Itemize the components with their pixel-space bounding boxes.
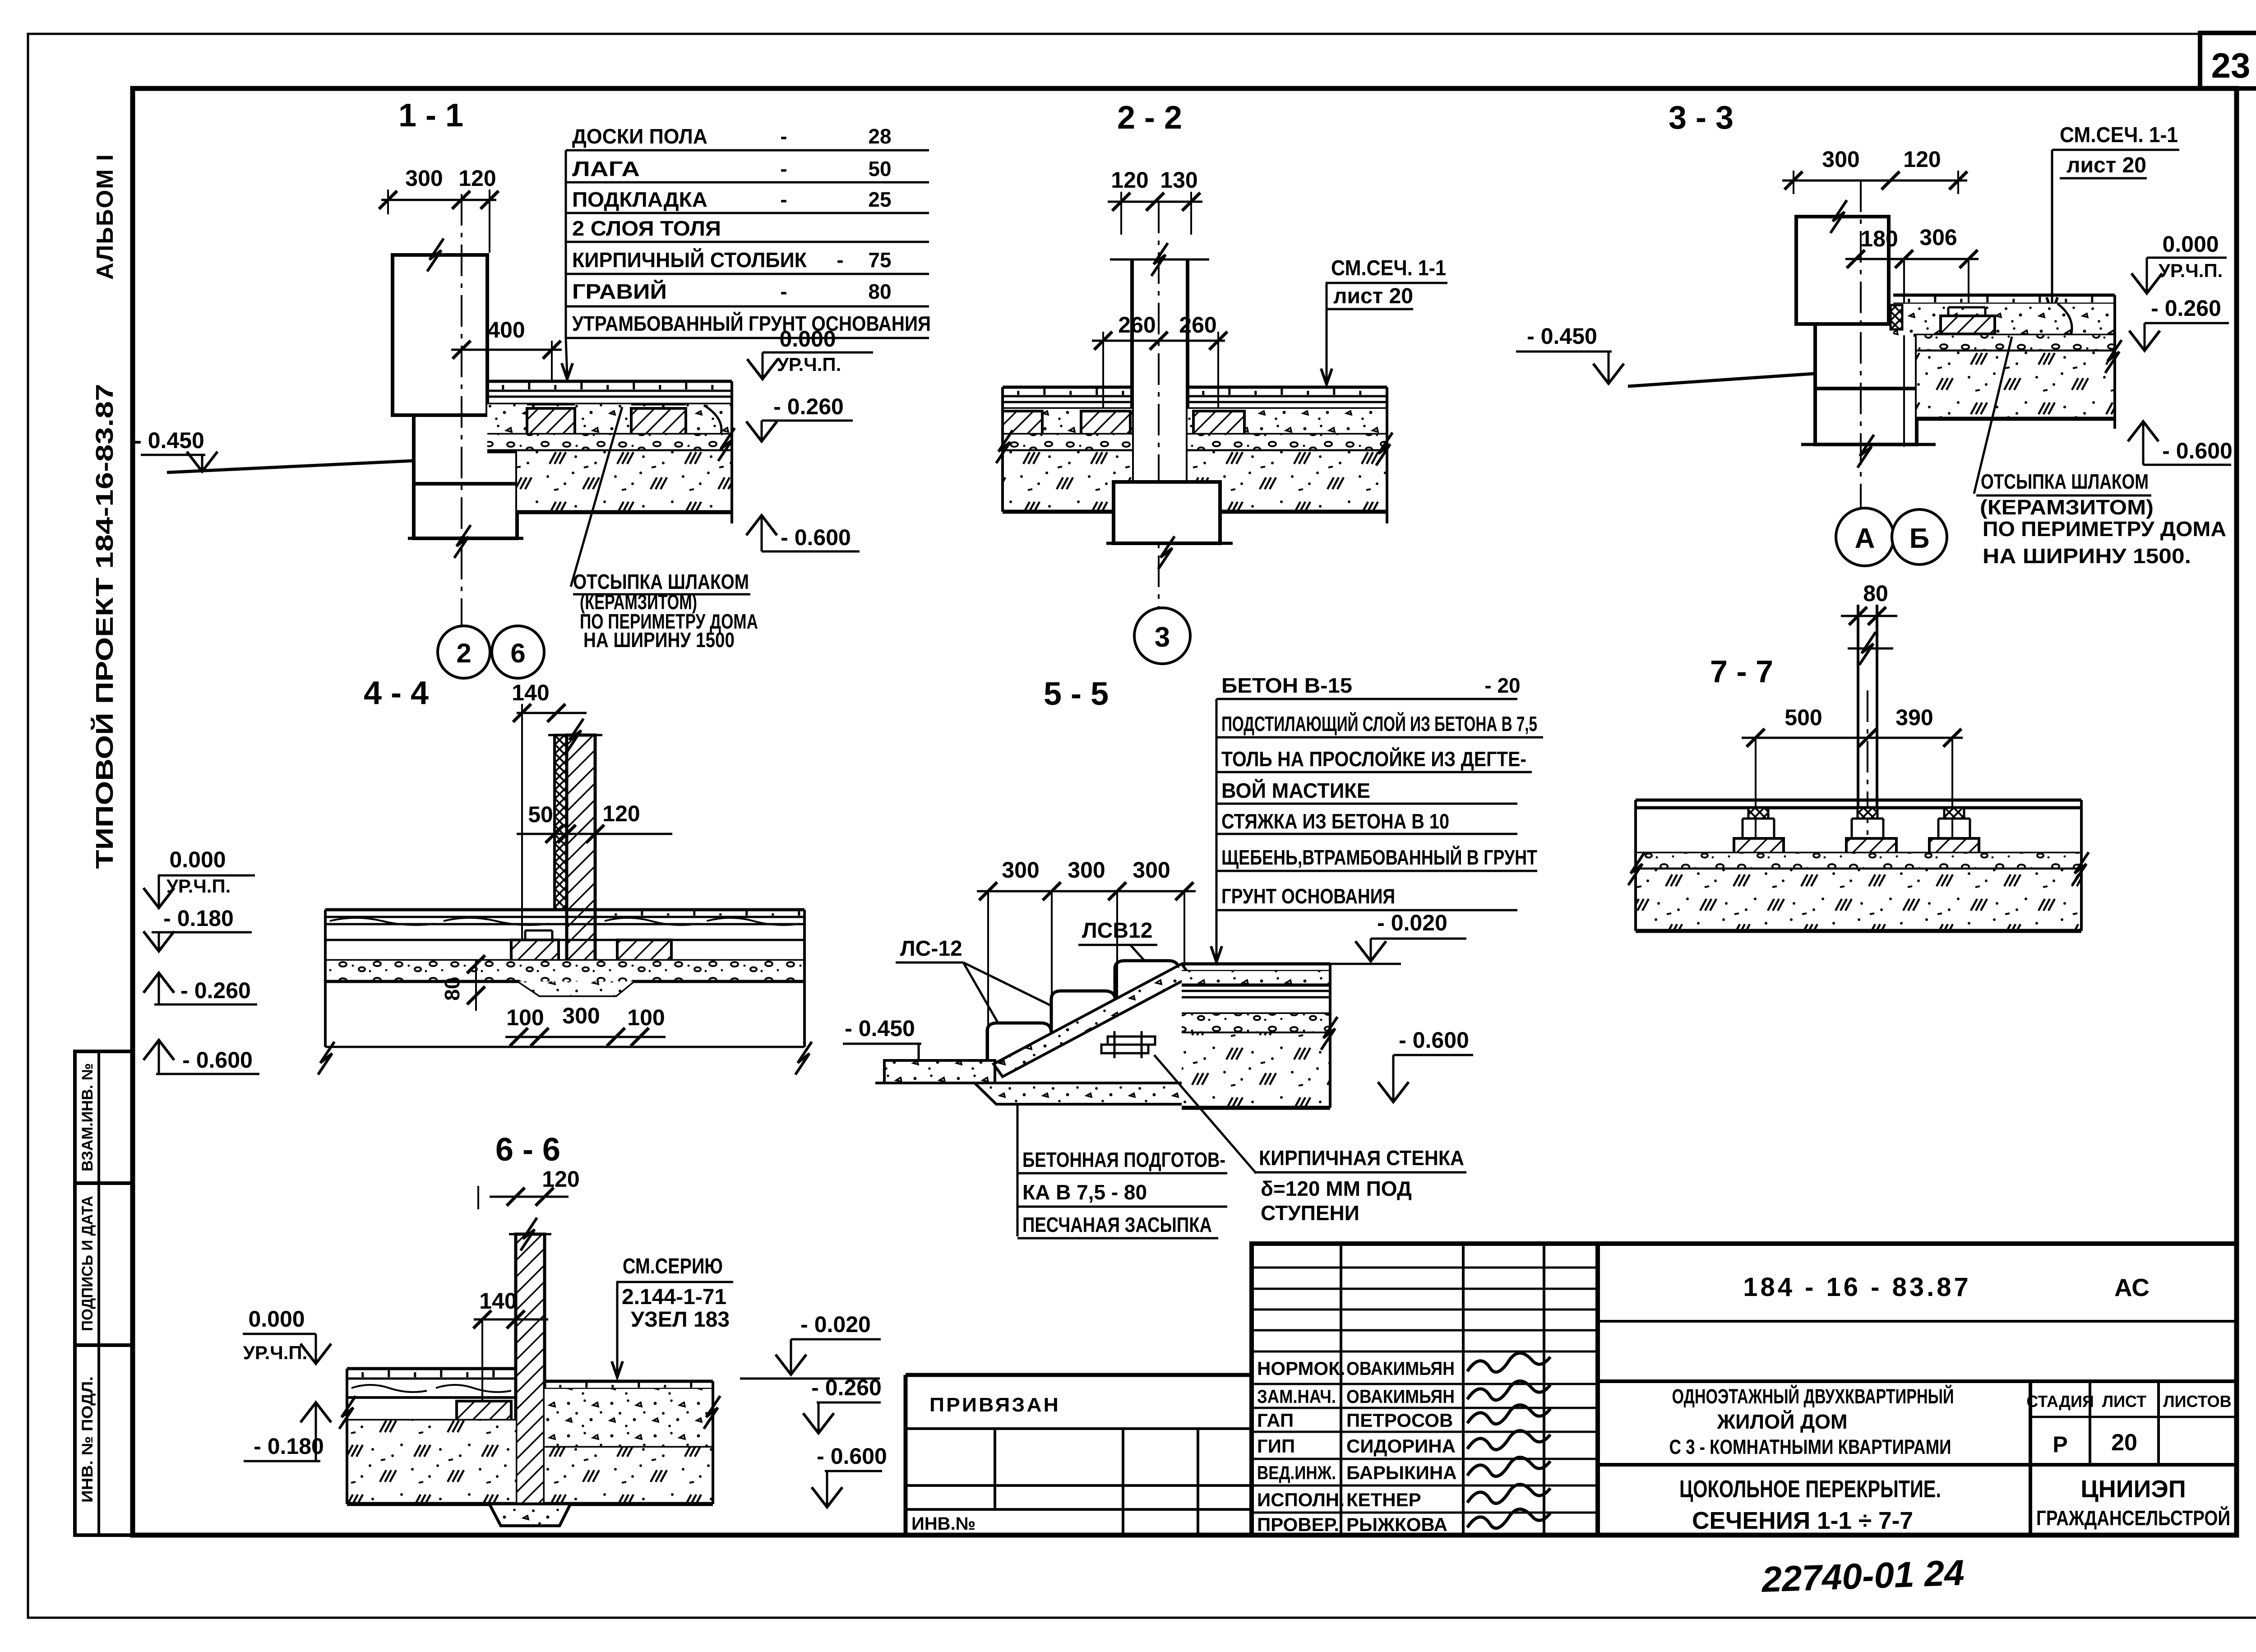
svg-text:УР.Ч.П.: УР.Ч.П. — [777, 354, 841, 375]
dim 100/300/100 (4-4) — [505, 1036, 666, 1038]
svg-text:260: 260 — [1179, 312, 1216, 338]
svg-text:ПОДКЛАДКА: ПОДКЛАДКА — [572, 188, 707, 211]
svg-text:ПЕТРОСОВ: ПЕТРОСОВ — [1346, 1410, 1453, 1431]
brick post block (1-1 right) — [631, 408, 686, 435]
wall (1-1) — [393, 255, 487, 415]
svg-text:-: - — [780, 157, 787, 180]
svg-text:ГАП: ГАП — [1257, 1410, 1294, 1431]
dim 300x3 (5-5) — [977, 890, 1196, 893]
svg-text:ГРУНТ ОСНОВАНИЯ: ГРУНТ ОСНОВАНИЯ — [1221, 884, 1395, 908]
svg-text:300: 300 — [1133, 857, 1170, 883]
floor right (2-2) — [1188, 386, 1387, 389]
svg-text:ЛИСТОВ: ЛИСТОВ — [2163, 1392, 2231, 1411]
svg-text:120: 120 — [602, 801, 640, 826]
svg-text:СМ.СЕЧ. 1-1: СМ.СЕЧ. 1-1 — [1331, 256, 1446, 280]
svg-text:РЫЖКОВА: РЫЖКОВА — [1346, 1514, 1447, 1535]
note ОТСЫПКА ШЛАКОМ (3-3) — [1974, 337, 2012, 494]
svg-text:ОВАКИМЬЯН: ОВАКИМЬЯН — [1346, 1358, 1455, 1379]
support blocks (4-4) — [511, 940, 559, 961]
svg-text:100: 100 — [506, 1005, 544, 1030]
svg-text:ОВАКИМЬЯН: ОВАКИМЬЯН — [1346, 1386, 1455, 1407]
grade line and -0.450 mark (1-1) — [167, 461, 414, 472]
svg-text:306: 306 — [1919, 225, 1957, 250]
svg-text:УТРАМБОВАННЫЙ ГРУНТ ОСНОВАНИЯ: УТРАМБОВАННЫЙ ГРУНТ ОСНОВАНИЯ — [572, 312, 931, 335]
svg-text:Б: Б — [1909, 523, 1930, 554]
svg-text:ЛАГА: ЛАГА — [572, 157, 640, 180]
svg-text:0.000: 0.000 — [169, 847, 226, 872]
svg-text:ГРАЖДАНСЕЛЬСТРОЙ: ГРАЖДАНСЕЛЬСТРОЙ — [2036, 1506, 2230, 1530]
svg-text:- 0.600: - 0.600 — [2162, 438, 2233, 463]
svg-text:3: 3 — [1155, 622, 1170, 653]
svg-text:ИНВ. № ПОДЛ.: ИНВ. № ПОДЛ. — [79, 1376, 96, 1503]
svg-text:ПО ПЕРИМЕТРУ ДОМА: ПО ПЕРИМЕТРУ ДОМА — [1983, 517, 2226, 541]
svg-text:390: 390 — [1895, 705, 1933, 730]
svg-text:2 - 2: 2 - 2 — [1117, 100, 1182, 136]
svg-text:75: 75 — [868, 248, 891, 272]
svg-text:БЕТОН В-15: БЕТОН В-15 — [1221, 674, 1352, 697]
wall (6-6) — [516, 1234, 545, 1504]
svg-text:120: 120 — [542, 1166, 579, 1192]
dim 260/260 (2-2) — [1092, 340, 1225, 342]
svg-text:28: 28 — [868, 125, 891, 148]
axis bubbles А and Б (3-3) — [1836, 508, 1894, 566]
dim 50/120 (4-4) — [517, 833, 672, 835]
floor assembly (1-1) — [487, 380, 732, 383]
svg-text:СЕЧЕНИЯ 1-1 ÷ 7-7: СЕЧЕНИЯ 1-1 ÷ 7-7 — [1692, 1507, 1913, 1534]
svg-text:120: 120 — [1111, 167, 1148, 193]
elevations right (6-6) — [740, 1378, 880, 1380]
svg-text:ВОЙ МАСТИКЕ: ВОЙ МАСТИКЕ — [1221, 779, 1370, 802]
grade line between 2-2 and 3-3 — [1628, 374, 1814, 386]
footing (2-2) — [1114, 482, 1220, 543]
svg-text:300: 300 — [405, 166, 443, 191]
svg-text:-: - — [780, 125, 787, 148]
axis line (2-2) — [1158, 202, 1160, 608]
svg-text:- 0.450: - 0.450 — [845, 1016, 915, 1041]
svg-text:- 0.180: - 0.180 — [254, 1434, 324, 1459]
svg-text:- 0.260: - 0.260 — [811, 1375, 882, 1400]
svg-text:ЗАМ.НАЧ.: ЗАМ.НАЧ. — [1257, 1386, 1336, 1407]
svg-text:- 0.600: - 0.600 — [781, 525, 851, 550]
note КИРПИЧНАЯ СТЕНКА (5-5) — [1154, 1055, 1256, 1173]
svg-text:АС: АС — [2114, 1273, 2150, 1301]
floor right edge (1-1) — [730, 381, 733, 523]
svg-text:А: А — [1855, 523, 1875, 554]
svg-text:- 0.020: - 0.020 — [800, 1312, 871, 1337]
dim 300/120 (3-3) — [1782, 180, 1967, 182]
svg-text:лист 20: лист 20 — [1333, 284, 1413, 308]
svg-text:ЛИСТ: ЛИСТ — [2102, 1392, 2146, 1411]
svg-text:δ=120 ММ ПОД: δ=120 ММ ПОД — [1261, 1177, 1412, 1200]
svg-text:6: 6 — [510, 638, 525, 668]
svg-text:50: 50 — [868, 157, 891, 180]
svg-text:130: 130 — [1160, 167, 1197, 193]
svg-text:СМ.СЕРИЮ: СМ.СЕРИЮ — [623, 1254, 723, 1278]
svg-text:80: 80 — [440, 977, 464, 1000]
svg-text:- 0.600: - 0.600 — [182, 1047, 253, 1073]
svg-text:СИДОРИНА: СИДОРИНА — [1346, 1435, 1456, 1457]
wall (4-4): crosshatch strip + brick strip — [555, 735, 567, 910]
svg-text:80: 80 — [1863, 581, 1888, 606]
svg-text:- 20: - 20 — [1484, 674, 1520, 697]
dim 120/130 (2-2) — [1108, 201, 1202, 203]
veranda floor deck (3-3) — [1893, 294, 2115, 297]
mask under stringer — [970, 963, 1218, 1115]
svg-text:ВЕД.ИНЖ.: ВЕД.ИНЖ. — [1257, 1462, 1336, 1483]
svg-text:ТИПОВОЙ ПРОЕКТ 184-16-83.87: ТИПОВОЙ ПРОЕКТ 184-16-83.87 — [91, 384, 118, 869]
note ОТСЫПКА ШЛАКОМ (1-1) — [571, 407, 622, 587]
title block: signature table — [1252, 1244, 1598, 1535]
svg-text:-: - — [780, 188, 787, 211]
svg-text:ПРИВЯЗАН: ПРИВЯЗАН — [929, 1394, 1060, 1416]
svg-text:120: 120 — [458, 166, 496, 191]
svg-text:- 0.450: - 0.450 — [134, 428, 204, 453]
svg-text:300: 300 — [1068, 857, 1105, 883]
svg-text:ТОЛЬ НА ПРОСЛОЙКЕ ИЗ ДЕГТЕ-: ТОЛЬ НА ПРОСЛОЙКЕ ИЗ ДЕГТЕ- — [1221, 747, 1526, 771]
table left edge + leader (5-5) — [1216, 699, 1218, 910]
dim extension lines into steps (5-5) — [987, 891, 989, 1060]
stair stringer (5-5) — [994, 964, 1191, 1077]
svg-text:2.144-1-71: 2.144-1-71 — [622, 1285, 726, 1309]
dim 180/306 (3-3) — [1845, 258, 1979, 260]
floor assembly (4-4) — [325, 908, 804, 912]
svg-text:- 0.260: - 0.260 — [2151, 296, 2221, 321]
svg-text:УР.Ч.П.: УР.Ч.П. — [243, 1342, 308, 1363]
table left edge + leader arrow — [565, 150, 567, 338]
foundation (3-3) — [1815, 324, 1917, 444]
svg-text:3 - 3: 3 - 3 — [1669, 100, 1734, 136]
left attachment table — [906, 1373, 1252, 1377]
svg-text:-: - — [837, 248, 843, 272]
foundation (1-1) — [414, 415, 517, 538]
svg-text:120: 120 — [1903, 147, 1941, 172]
plinth piece at wall face (3-3) — [1891, 305, 1902, 329]
wall (3-3) — [1796, 217, 1889, 324]
svg-text:С 3 - КОМНАТНЫМИ КВАРТИРАМИ: С 3 - КОМНАТНЫМИ КВАРТИРАМИ — [1669, 1435, 1951, 1458]
svg-text:0.000: 0.000 — [2162, 231, 2219, 257]
svg-text:260: 260 — [1118, 312, 1156, 338]
svg-text:ЦНИИЭП: ЦНИИЭП — [2080, 1476, 2186, 1503]
right floor block (5-5) — [1182, 963, 1330, 966]
svg-text:22740-01 24: 22740-01 24 — [1760, 1552, 1965, 1600]
dim 300/120 (1-1) — [381, 199, 496, 201]
svg-text:ПОДПИСЬ И ДАТА: ПОДПИСЬ И ДАТА — [79, 1196, 96, 1331]
svg-text:КИРПИЧНАЯ СТЕНКА: КИРПИЧНАЯ СТЕНКА — [1259, 1146, 1464, 1170]
column (2-2) — [1130, 259, 1134, 482]
floor right (6-6) — [545, 1380, 713, 1383]
svg-text:400: 400 — [487, 317, 525, 342]
svg-text:НА ШИРИНУ 1500: НА ШИРИНУ 1500 — [583, 628, 735, 652]
svg-text:80: 80 — [868, 280, 891, 303]
svg-text:ПРОВЕР.: ПРОВЕР. — [1257, 1514, 1339, 1535]
partition wall (7-7) — [1857, 605, 1859, 819]
svg-text:- 0.020: - 0.020 — [1377, 910, 1447, 935]
svg-text:ИНВ.№: ИНВ.№ — [911, 1514, 975, 1534]
svg-text:ГИП: ГИП — [1257, 1435, 1295, 1457]
svg-text:НОРМОК.: НОРМОК. — [1257, 1358, 1345, 1379]
floor left (6-6) — [347, 1367, 516, 1370]
dim 400 (1-1) — [451, 349, 562, 351]
svg-text:0.000: 0.000 — [779, 326, 836, 352]
svg-text:- 0.260: - 0.260 — [180, 978, 251, 1003]
title block: right part — [1598, 1244, 2237, 1535]
svg-text:УР.Ч.П.: УР.Ч.П. — [166, 875, 231, 897]
svg-text:КИРПИЧНЫЙ СТОЛБИК: КИРПИЧНЫЙ СТОЛБИК — [572, 248, 807, 272]
floor deck (7-7) — [1636, 799, 2081, 802]
svg-text:- 0.450: - 0.450 — [1527, 324, 1597, 349]
brick pad block (3-3) — [1941, 316, 1995, 334]
axis line (1-1) — [461, 194, 462, 625]
ground line with pit (4-4) — [325, 981, 804, 995]
svg-text:140: 140 — [479, 1288, 517, 1314]
svg-text:7 - 7: 7 - 7 — [1710, 654, 1773, 689]
brick post block (1-1 left) — [527, 408, 575, 435]
svg-text:СТУПЕНИ: СТУПЕНИ — [1261, 1201, 1359, 1225]
svg-text:СТАДИЯ: СТАДИЯ — [2026, 1392, 2094, 1411]
svg-text:ОДНОЭТАЖНЫЙ ДВУХКВАРТИРНЫЙ: ОДНОЭТАЖНЫЙ ДВУХКВАРТИРНЫЙ — [1672, 1385, 1954, 1408]
svg-text:- 0.180: - 0.180 — [163, 906, 234, 931]
svg-text:180: 180 — [1860, 226, 1898, 251]
svg-text:ДОСКИ ПОЛА: ДОСКИ ПОЛА — [572, 125, 707, 148]
floor left (2-2) — [1003, 386, 1132, 389]
svg-text:ИСПОЛН.: ИСПОЛН. — [1257, 1489, 1345, 1510]
svg-text:6 - 6: 6 - 6 — [495, 1132, 560, 1168]
brick posts (7-7) — [1734, 838, 1784, 853]
svg-text:23: 23 — [2211, 46, 2251, 85]
svg-text:СТЯЖКА ИЗ БЕТОНА В 10: СТЯЖКА ИЗ БЕТОНА В 10 — [1221, 810, 1449, 833]
svg-text:УЗЕЛ 183: УЗЕЛ 183 — [631, 1308, 730, 1332]
svg-text:ВЗАМ.ИНВ. №: ВЗАМ.ИНВ. № — [79, 1063, 96, 1171]
svg-text:УР.Ч.П.: УР.Ч.П. — [2159, 260, 2223, 281]
svg-text:СМ.СЕЧ. 1-1: СМ.СЕЧ. 1-1 — [2060, 123, 2178, 147]
svg-text:Р: Р — [2053, 1432, 2067, 1457]
dim 500/390 (7-7) — [1742, 737, 1963, 739]
svg-text:НА ШИРИНУ 1500.: НА ШИРИНУ 1500. — [1983, 544, 2191, 568]
stair steps (5-5) — [987, 1023, 1051, 1064]
footing pad (6-6) — [490, 1504, 570, 1526]
note БЕТОННАЯ ПОДГОТОВКА (5-5) — [1017, 1104, 1019, 1236]
svg-text:ПЕСЧАНАЯ ЗАСЫПКА: ПЕСЧАНАЯ ЗАСЫПКА — [1022, 1213, 1212, 1236]
svg-text:5 - 5: 5 - 5 — [1044, 676, 1109, 712]
svg-text:ГРАВИЙ: ГРАВИЙ — [572, 280, 667, 303]
svg-text:ЩЕБЕНЬ,ВТРАМБОВАННЫЙ В ГРУНТ: ЩЕБЕНЬ,ВТРАМБОВАННЫЙ В ГРУНТ — [1221, 846, 1537, 869]
svg-text:300: 300 — [562, 1003, 600, 1028]
svg-text:БЕТОННАЯ ПОДГОТОВ-: БЕТОННАЯ ПОДГОТОВ- — [1022, 1148, 1225, 1171]
axis line (3-3) — [1860, 180, 1862, 509]
svg-text:4 - 4: 4 - 4 — [364, 675, 429, 711]
axis bubbles 2 and 6 (1-1) — [438, 626, 490, 678]
svg-text:(КЕРАМЗИТОМ): (КЕРАМЗИТОМ) — [1980, 495, 2154, 519]
svg-text:1 - 1: 1 - 1 — [398, 97, 463, 134]
svg-text:184 - 16 - 83.87: 184 - 16 - 83.87 — [1743, 1273, 1971, 1302]
base slab (5-5) — [975, 1083, 1202, 1104]
svg-text:лист 20: лист 20 — [2066, 153, 2146, 177]
svg-text:АЛЬБОМ I: АЛЬБОМ I — [92, 153, 118, 280]
svg-text:300: 300 — [1002, 857, 1039, 883]
svg-text:КА В 7,5 - 80: КА В 7,5 - 80 — [1022, 1180, 1147, 1204]
svg-text:100: 100 — [627, 1005, 665, 1030]
svg-text:500: 500 — [1784, 705, 1822, 730]
brick wall symbol (5-5) — [1108, 1037, 1155, 1045]
svg-text:25: 25 — [868, 188, 891, 211]
svg-text:- 0.260: - 0.260 — [773, 394, 844, 419]
page number box — [2200, 33, 2256, 88]
dim 80 vertical (4-4) — [475, 961, 477, 1011]
svg-text:2: 2 — [456, 638, 471, 668]
svg-text:ОТСЫПКА ШЛАКОМ: ОТСЫПКА ШЛАКОМ — [1981, 470, 2149, 493]
svg-text:140: 140 — [512, 680, 549, 705]
svg-text:20: 20 — [2111, 1430, 2137, 1456]
svg-text:- 0.600: - 0.600 — [817, 1444, 887, 1469]
left margin stamp boxes — [75, 1051, 133, 1535]
post caps (7-7) — [1743, 818, 1774, 820]
svg-text:ЖИЛОЙ ДОМ: ЖИЛОЙ ДОМ — [1717, 1410, 1848, 1433]
svg-text:300: 300 — [1822, 147, 1859, 172]
svg-text:- 0.600: - 0.600 — [1399, 1027, 1469, 1053]
svg-text:ЦОКОЛЬНОЕ ПЕРЕКРЫТИЕ.: ЦОКОЛЬНОЕ ПЕРЕКРЫТИЕ. — [1679, 1476, 1941, 1503]
svg-text:-: - — [780, 280, 787, 303]
svg-text:0.000: 0.000 — [248, 1306, 305, 1332]
svg-text:ЛС-12: ЛС-12 — [900, 937, 962, 961]
svg-text:2 СЛОЯ ТОЛЯ: 2 СЛОЯ ТОЛЯ — [572, 217, 721, 240]
slag band (3-3) — [1893, 304, 2115, 335]
svg-text:ПОДСТИЛАЮЩИЙ СЛОЙ ИЗ БЕТОНА В: ПОДСТИЛАЮЩИЙ СЛОЙ ИЗ БЕТОНА В 7,5 — [1221, 712, 1537, 736]
svg-text:КЕТНЕР: КЕТНЕР — [1346, 1489, 1421, 1510]
svg-text:БАРЫКИНА: БАРЫКИНА — [1346, 1462, 1457, 1483]
axis bubble 3 (2-2) — [1134, 608, 1190, 664]
floor right edge (3-3) — [2113, 295, 2116, 429]
svg-text:50: 50 — [528, 802, 553, 827]
grade strip left of stairs (5-5) — [884, 1060, 995, 1083]
